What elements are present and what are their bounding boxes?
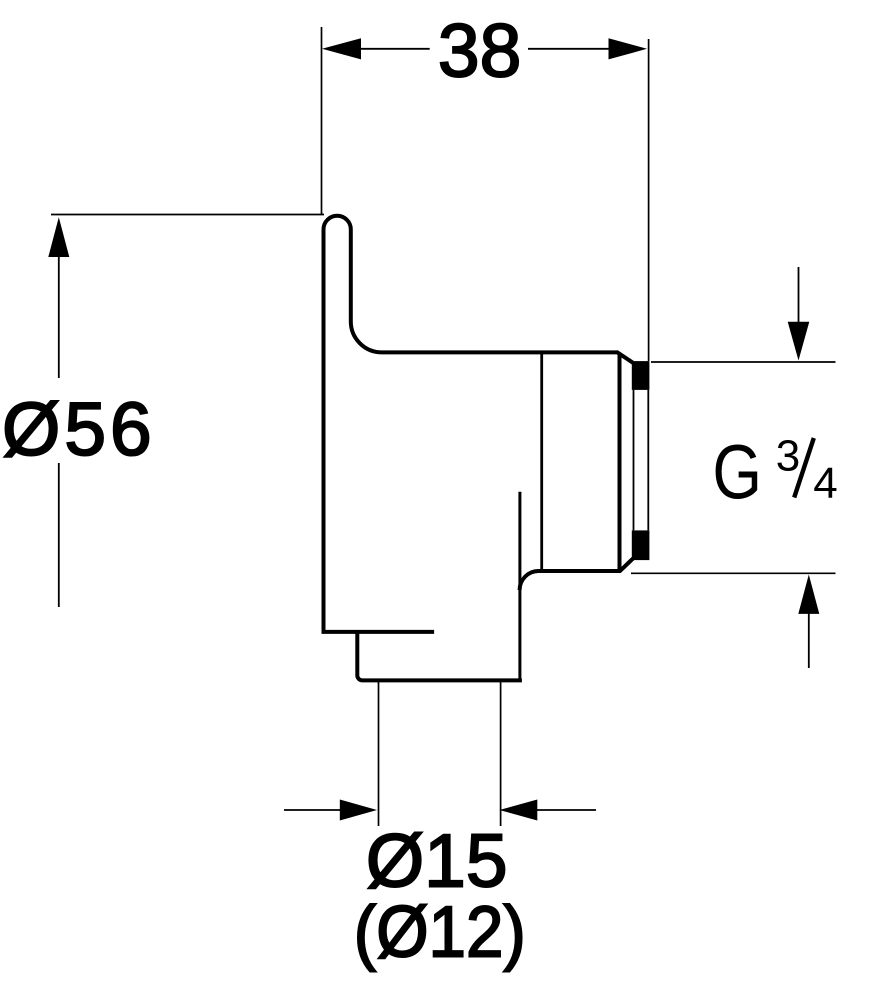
- dim line D56 upper segment: [58, 255, 60, 378]
- dim line D15 left segment: [284, 809, 342, 811]
- svg-text:(Ø12): (Ø12): [354, 893, 526, 973]
- thread top black band: [632, 361, 650, 390]
- svg-text:Ø56: Ø56: [2, 387, 156, 471]
- svg-text:4: 4: [813, 459, 837, 508]
- flange boundary vertical: [540, 353, 543, 572]
- dim line 38 right segment: [528, 48, 610, 50]
- extension line top for D56: [51, 214, 324, 216]
- thread minor line left: [633, 390, 635, 531]
- extension line right of 38: [648, 39, 650, 361]
- inner tube vertical: [518, 492, 521, 680]
- svg-text:Ø15: Ø15: [366, 819, 508, 903]
- G3/4 arrow top shaft: [798, 267, 800, 324]
- neck bottom edge with chamfer and fillet: [520, 559, 633, 591]
- svg-text:G: G: [712, 430, 762, 516]
- thread bottom black band: [632, 530, 650, 560]
- dim line 38 left segment: [359, 48, 430, 50]
- G3/4 arrowhead down: [788, 322, 810, 361]
- fraction slash: [794, 438, 814, 498]
- extension line left of 38: [321, 27, 323, 214]
- G3/4 extension line bottom: [631, 572, 836, 574]
- arrowhead 38 left: [322, 38, 361, 59]
- body outline: wall plate and ledge: [324, 216, 618, 633]
- arrowhead D56 up: [48, 217, 69, 257]
- pipe right edge: [500, 680, 502, 826]
- thread minor line right: [647, 390, 649, 531]
- arrowhead D15 left: [340, 800, 377, 821]
- G3/4 arrowhead up: [798, 575, 819, 614]
- svg-text:38: 38: [438, 9, 521, 93]
- G3/4 arrow bottom shaft: [808, 612, 810, 668]
- dim line D56 lower segment: [58, 463, 60, 607]
- svg-text:3: 3: [776, 432, 800, 481]
- G3/4 extension line top: [651, 361, 836, 363]
- dim line D15 right segment: [535, 809, 596, 811]
- bottom stub outline: [357, 630, 522, 680]
- cap face vertical: [618, 353, 622, 572]
- arrowhead D15 right: [499, 800, 537, 821]
- step hidden edge horizontal: [322, 630, 435, 634]
- chamfer top of thread: [617, 352, 634, 363]
- pipe left edge: [378, 680, 380, 826]
- arrowhead 38 right: [609, 38, 648, 59]
